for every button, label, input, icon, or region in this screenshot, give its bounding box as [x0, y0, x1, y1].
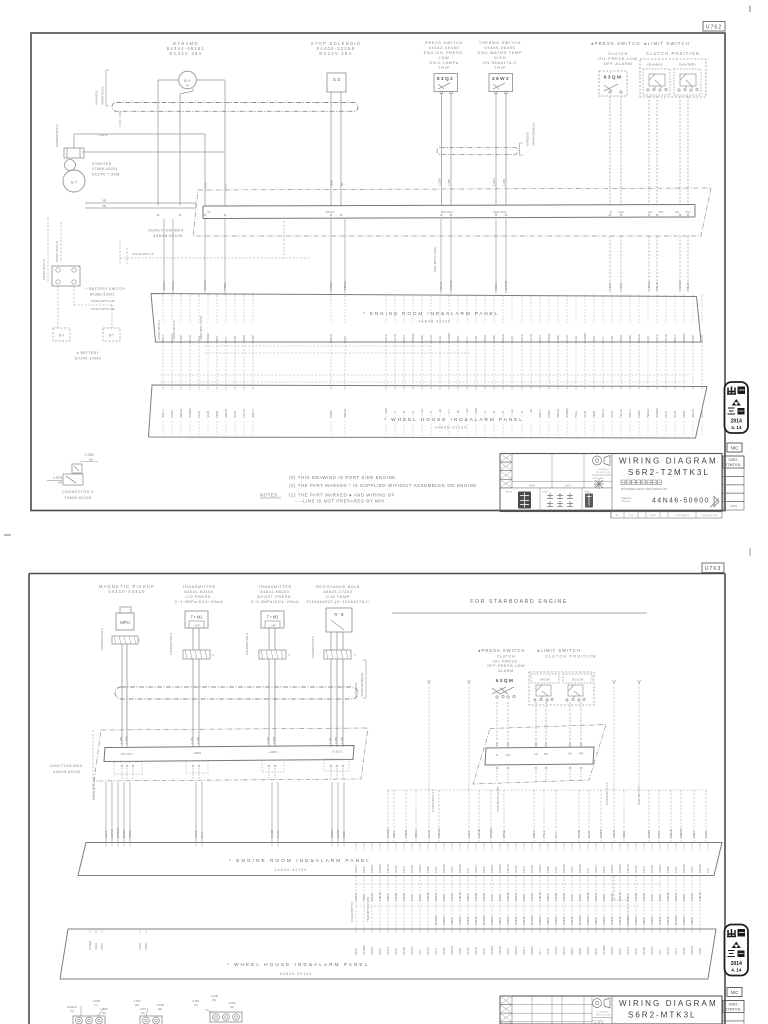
- svg-text:N: N: [610, 210, 612, 214]
- svg-text:OPAL3: OPAL3: [251, 409, 255, 418]
- svg-text:OPMP: OPMP: [442, 947, 446, 955]
- svg-text:T • M2: T • M2: [267, 615, 280, 620]
- svg-text:1A 1B 1S: 1A 1B 1S: [332, 750, 343, 754]
- svg-text:FB21G: FB21G: [562, 947, 566, 955]
- svg-text:63QS: 63QS: [510, 336, 514, 343]
- svg-text:S1HG: S1HG: [104, 831, 108, 838]
- svg-text:CW1D: CW1D: [482, 893, 486, 901]
- svg-text:PE8D: PE8D: [342, 831, 346, 838]
- svg-text:SAS0: SAS0: [450, 866, 454, 873]
- svg-text:CONNECTOR A: CONNECTOR A: [62, 490, 94, 494]
- svg-text:PSLG: PSLG: [664, 411, 668, 418]
- svg-text:RN1G0: RN1G0: [466, 916, 470, 925]
- svg-text:TIWN MPYC-12(1B): TIWN MPYC-12(1B): [496, 787, 500, 812]
- svg-text:BOOST PRESS.: BOOST PRESS.: [257, 595, 292, 599]
- svg-text:PWH10: PWH10: [530, 946, 534, 955]
- svg-text:OPMQ4: OPMQ4: [490, 945, 494, 955]
- svg-text:RN1G0: RN1G0: [562, 916, 566, 925]
- svg-text:PALB0: PALB0: [410, 865, 414, 873]
- svg-text:NOTES.: NOTES.: [260, 493, 279, 498]
- svg-text:0.6/1kV BPYC-4: 0.6/1kV BPYC-4: [157, 320, 161, 340]
- svg-text:S S: S S: [333, 77, 340, 82]
- svg-text:OPAL3: OPAL3: [628, 409, 632, 418]
- svg-text:8.6/1kV BPYC-1.5: 8.6/1kV BPYC-1.5: [605, 782, 609, 805]
- svg-text:PAL20: PAL20: [530, 893, 534, 901]
- svg-text:DC24V 35A: DC24V 35A: [169, 51, 202, 56]
- svg-text:PB1G: PB1G: [442, 894, 446, 901]
- svg-text:84625-17200: 84625-17200: [324, 590, 353, 594]
- svg-text:(R): (R): [194, 1003, 198, 1007]
- svg-text:STARTER: STARTER: [92, 162, 112, 166]
- svg-text:S1HG: S1HG: [438, 336, 442, 343]
- svg-text:(G): (G): [70, 1009, 74, 1013]
- svg-text:HARNESS: HARNESS: [95, 90, 99, 105]
- svg-text:PB1G: PB1G: [392, 831, 396, 838]
- svg-text:SAS0: SAS0: [690, 866, 694, 873]
- svg-text:S1MF0: S1MF0: [554, 916, 558, 925]
- svg-text:63QS: 63QS: [692, 831, 696, 838]
- svg-text:PBPG: PBPG: [215, 336, 219, 343]
- svg-text:PBPG: PBPG: [546, 894, 550, 901]
- svg-text:OY-1: OY-1: [200, 831, 204, 838]
- svg-text:0.85L: 0.85L: [193, 999, 200, 1003]
- svg-text:SAH0: SAH0: [587, 830, 591, 838]
- svg-text:CONNECTOR D: CONNECTOR D: [169, 632, 173, 655]
- svg-text:DC24V 15A: DC24V 15A: [319, 51, 352, 56]
- svg-text:RN1G0: RN1G0: [224, 409, 228, 418]
- svg-text:63QS: 63QS: [578, 894, 582, 901]
- svg-text:+1MP1: +1MP1: [193, 751, 202, 755]
- svg-text:S1HF0: S1HF0: [384, 334, 388, 343]
- svg-text:PWH10: PWH10: [586, 916, 590, 925]
- svg-text:2MP2D: 2MP2D: [450, 946, 454, 955]
- svg-text:OPAL3: OPAL3: [594, 864, 598, 873]
- svg-text:A E: A E: [186, 85, 190, 88]
- svg-text:PWH10: PWH10: [442, 916, 446, 925]
- svg-text:PAL20: PAL20: [188, 335, 192, 343]
- svg-text:1.33W: 1.33W: [100, 1007, 108, 1011]
- svg-text:1MP1D: 1MP1D: [458, 892, 462, 901]
- svg-text:44N45-50100: 44N45-50100: [280, 972, 313, 976]
- svg-text:PWH10: PWH10: [378, 864, 382, 873]
- svg-text:44N45-50100: 44N45-50100: [435, 426, 468, 430]
- svg-text:1.25L: 1.25L: [328, 737, 332, 744]
- svg-text:PWH10: PWH10: [682, 916, 686, 925]
- svg-text:PSLG: PSLG: [542, 831, 546, 838]
- svg-text:PWH10: PWH10: [490, 916, 494, 925]
- svg-text:PWN10: PWN10: [442, 864, 446, 873]
- svg-text:1MP1D: 1MP1D: [538, 892, 542, 901]
- svg-text:↓: ↓: [288, 652, 291, 658]
- svg-text:SAH0: SAH0: [506, 948, 510, 955]
- svg-text:PS5W: PS5W: [691, 335, 695, 343]
- svg-text:PB1G: PB1G: [362, 866, 366, 873]
- svg-text:PS10: PS10: [434, 866, 438, 873]
- svg-text:B-Y: B-Y: [184, 78, 191, 83]
- svg-text:26W2: 26W2: [492, 76, 510, 82]
- svg-text:TIWN MPYC-37(2S): TIWN MPYC-37(2S): [199, 316, 203, 340]
- svg-text:4. 14: 4. 14: [731, 425, 742, 430]
- svg-text:Y1G1D: Y1G1D: [619, 409, 623, 418]
- svg-text:PAL20: PAL20: [429, 335, 433, 343]
- svg-text:WIRING DIAGRAM: WIRING DIAGRAM: [619, 457, 718, 466]
- svg-text:OPAL1: OPAL1: [522, 946, 526, 955]
- svg-text:B-T: B-T: [59, 334, 64, 338]
- svg-text:OPMQ4: OPMQ4: [386, 828, 390, 838]
- svg-text:OPMQ4: OPMQ4: [88, 940, 92, 950]
- svg-text:S-T: S-T: [71, 180, 78, 185]
- svg-text:2MP2D: 2MP2D: [618, 916, 622, 925]
- svg-text:SAS0: SAS0: [610, 411, 614, 418]
- svg-text:ON:95&#176;C: ON:95&#176;C: [483, 61, 518, 65]
- svg-text:PS10: PS10: [650, 894, 654, 901]
- svg-text:RN1G0: RN1G0: [637, 334, 641, 343]
- svg-text:* BATTERY SWITCH: * BATTERY SWITCH: [86, 287, 125, 291]
- svg-text:PBPG: PBPG: [592, 336, 596, 343]
- svg-text:+ MP: + MP: [193, 624, 199, 628]
- svg-text:Y1G1D: Y1G1D: [242, 409, 246, 418]
- svg-text:OPMP: OPMP: [682, 947, 686, 955]
- svg-text:P(10k&#937;)0~120&#176;C: P(10k&#937;)0~120&#176;C: [306, 600, 369, 604]
- svg-text:U763: U763: [705, 566, 721, 572]
- svg-text:PB1G: PB1G: [682, 894, 686, 901]
- svg-text:84386-53001: 84386-53001: [90, 293, 115, 297]
- svg-text:OFF:ALARM: OFF:ALARM: [604, 61, 633, 66]
- svg-text:44N48-56105: 44N48-56105: [153, 233, 183, 238]
- svg-text:PALB0: PALB0: [530, 865, 534, 873]
- svg-text:T2MTK3L: T2MTK3L: [726, 463, 742, 467]
- svg-text:S1MF0: S1MF0: [538, 864, 542, 873]
- svg-text:84541-50400: 84541-50400: [185, 590, 214, 594]
- svg-text:5B: 5B: [102, 199, 106, 203]
- svg-text:RN1G0: RN1G0: [601, 409, 605, 418]
- svg-text:1.25B: 1.25B: [447, 179, 451, 186]
- svg-text:PSLG: PSLG: [402, 866, 406, 873]
- svg-text:PS5W: PS5W: [458, 947, 462, 955]
- svg-text:PSLG: PSLG: [197, 411, 201, 418]
- svg-text:PLG: PLG: [586, 868, 590, 873]
- svg-text:CONNECTOR E: CONNECTOR E: [245, 633, 249, 655]
- svg-text:63QM: 63QM: [604, 75, 623, 81]
- svg-text:SAH0: SAH0: [206, 410, 210, 418]
- svg-text:S1MF0: S1MF0: [458, 916, 462, 925]
- svg-text:44N46-50600: 44N46-50600: [652, 498, 710, 505]
- svg-text:S1HF0: S1HF0: [655, 334, 659, 343]
- svg-text:+ MP: + MP: [269, 624, 275, 628]
- svg-text:OPMWA: OPMWA: [655, 407, 659, 418]
- svg-text:PS5W: PS5W: [420, 335, 424, 343]
- svg-text:ALARM: ALARM: [498, 669, 514, 673]
- svg-text:OPAL3: OPAL3: [386, 946, 390, 955]
- svg-text:2MP2D: 2MP2D: [458, 864, 462, 873]
- svg-text:OIL PRESS.: OIL PRESS.: [493, 659, 519, 663]
- svg-text:2014: 2014: [731, 419, 742, 425]
- svg-text:OPMQ4: OPMQ4: [411, 333, 415, 343]
- svg-text:63QM: 63QM: [496, 678, 515, 684]
- svg-text:C/W TEMP: C/W TEMP: [326, 595, 350, 599]
- svg-text:RN1G0: RN1G0: [650, 946, 654, 955]
- svg-text:PWH10: PWH10: [634, 916, 638, 925]
- svg-text:PALB0: PALB0: [634, 893, 638, 901]
- svg-text:PE8D: PE8D: [215, 411, 219, 418]
- svg-text:PB1G: PB1G: [354, 948, 358, 955]
- svg-text:PAL20: PAL20: [655, 281, 659, 290]
- svg-text:1.25B: 1.25B: [196, 737, 200, 744]
- svg-text:* WHEEL HOUSE IND&ALARM PANEL: * WHEEL HOUSE IND&ALARM PANEL: [384, 417, 524, 423]
- svg-text:OPMQ4: OPMQ4: [682, 333, 686, 343]
- svg-text:3N:CCW: 3N:CCW: [572, 678, 584, 682]
- svg-text:PLG: PLG: [658, 950, 662, 955]
- svg-text:5PW: 5PW: [330, 180, 334, 186]
- svg-text:1.25B: 1.25B: [92, 999, 99, 1003]
- svg-text:OPMWA: OPMWA: [565, 407, 569, 418]
- svg-text:1.25YL: 1.25YL: [98, 133, 108, 137]
- svg-text:PWN10: PWN10: [679, 828, 683, 838]
- svg-text:PWN10: PWN10: [514, 946, 518, 955]
- svg-text:PSLG: PSLG: [522, 866, 526, 873]
- svg-text:DRWN: DRWN: [584, 492, 591, 494]
- svg-text:PWH10: PWH10: [437, 828, 441, 838]
- svg-text:●PRESS.SWITCH: ●PRESS.SWITCH: [591, 41, 641, 46]
- svg-text:3N:ASTERN: 3N:ASTERN: [679, 63, 696, 67]
- svg-text:↓: ↓: [212, 652, 215, 658]
- svg-text:OPAL1: OPAL1: [538, 334, 542, 343]
- svg-text:PS5W: PS5W: [698, 947, 702, 955]
- svg-text:OPMWA: OPMWA: [116, 827, 120, 838]
- svg-text:CONNECTOR A: CONNECTOR A: [55, 123, 59, 147]
- svg-text:1.25YL: 1.25YL: [53, 476, 63, 480]
- svg-text:0.6/1kV BPYC-1.5: 0.6/1kV BPYC-1.5: [431, 789, 435, 812]
- svg-text:L/O PRESS.: L/O PRESS.: [185, 595, 212, 599]
- svg-text:THERMO SWITCH: THERMO SWITCH: [479, 41, 521, 45]
- svg-text:PB1G: PB1G: [482, 866, 486, 873]
- svg-text:PALB0: PALB0: [577, 829, 581, 838]
- svg-text:U762: U762: [706, 25, 722, 31]
- svg-text:2MP2D: 2MP2D: [690, 946, 694, 955]
- svg-text:OPAL1: OPAL1: [674, 892, 678, 901]
- svg-text:P.1/2: P.1/2: [629, 515, 635, 517]
- svg-text:63QS: 63QS: [418, 894, 422, 901]
- svg-text:DC24V 200Ah: DC24V 200Ah: [75, 357, 102, 361]
- svg-text:1MP1D: 1MP1D: [504, 281, 508, 290]
- svg-text:PROJECTION: PROJECTION: [596, 1015, 611, 1017]
- svg-text:(Y): (Y): [94, 1003, 98, 1007]
- svg-text:OPMWA: OPMWA: [188, 407, 192, 418]
- svg-text:APPR: APPR: [730, 504, 737, 508]
- svg-text:CW1D: CW1D: [612, 830, 616, 838]
- svg-text:PS5W: PS5W: [170, 410, 174, 418]
- svg-text:* WHEEL HOUSE IND&ALARM PANEL: * WHEEL HOUSE IND&ALARM PANEL: [227, 962, 370, 968]
- svg-text:1.25B: 1.25B: [156, 1003, 163, 1007]
- svg-text:PS5W: PS5W: [179, 335, 183, 343]
- svg-text:OPAL3: OPAL3: [354, 864, 358, 873]
- svg-text:B42B: B42B: [650, 515, 656, 517]
- svg-text:OPMQ4: OPMQ4: [530, 915, 534, 925]
- svg-text:PS10: PS10: [570, 894, 574, 901]
- svg-text:ON:AHEAD: ON:AHEAD: [647, 63, 664, 67]
- svg-text:PSLG: PSLG: [194, 831, 198, 838]
- svg-text:R - B: R - B: [334, 612, 344, 617]
- svg-text:1.25B: 1.25B: [502, 179, 506, 186]
- svg-text:OPMWA: OPMWA: [206, 332, 210, 343]
- svg-text:N/O: N/O: [506, 753, 512, 757]
- svg-text:W21 W22: W21 W22: [493, 210, 507, 214]
- svg-text:OPMP: OPMP: [492, 335, 496, 343]
- svg-text:●LIMIT SWITCH: ●LIMIT SWITCH: [644, 41, 690, 46]
- svg-text:FB21G: FB21G: [647, 281, 651, 290]
- svg-text:PWH10: PWH10: [678, 280, 682, 290]
- svg-text:AS: AS: [675, 210, 679, 214]
- svg-text:TRIP: TRIP: [494, 66, 506, 70]
- svg-text:OFF:PRESS.LOW: OFF:PRESS.LOW: [487, 664, 525, 668]
- svg-text:CLUTCH POSITION: CLUTCH POSITION: [545, 654, 596, 659]
- svg-text:OPAL3: OPAL3: [161, 409, 165, 418]
- svg-text:(W): (W): [230, 1005, 234, 1009]
- svg-text:PALB0: PALB0: [270, 829, 274, 838]
- svg-text:Y1G1D: Y1G1D: [554, 946, 558, 955]
- svg-text:B21 B22: B21 B22: [441, 210, 453, 214]
- svg-text:1MP1D: 1MP1D: [477, 829, 481, 838]
- svg-text:OPAL1: OPAL1: [434, 892, 438, 901]
- svg-text:S1HG: S1HG: [94, 943, 98, 950]
- svg-text:OPMP: OPMP: [628, 335, 632, 343]
- svg-text:0.6/1kV BPYC-5: 0.6/1kV BPYC-5: [350, 901, 354, 922]
- svg-text:PE8D: PE8D: [426, 866, 430, 873]
- svg-text:84641-98200: 84641-98200: [261, 590, 290, 594]
- svg-text:44N48-51100: 44N48-51100: [101, 86, 105, 105]
- svg-text:PWH10: PWH10: [449, 280, 453, 290]
- svg-text:3~0.3MPa/DC4~20mA: 3~0.3MPa/DC4~20mA: [251, 600, 299, 604]
- svg-text:PBPG: PBPG: [386, 894, 390, 901]
- svg-text:OPMWA: OPMWA: [362, 945, 366, 955]
- svg-text:↓: ↓: [354, 652, 357, 658]
- svg-text:63QS: 63QS: [646, 336, 650, 343]
- svg-text:2MP2D: 2MP2D: [426, 892, 430, 901]
- svg-text:PALB0: PALB0: [650, 865, 654, 873]
- svg-text:N/C: N/C: [731, 446, 739, 451]
- svg-text:●LIMIT SWITCH: ●LIMIT SWITCH: [537, 648, 581, 653]
- svg-text:PWH10: PWH10: [179, 408, 183, 418]
- svg-text:CW1D: CW1D: [474, 947, 478, 955]
- svg-text:FNR SCALE: FNR SCALE: [592, 1020, 604, 1023]
- svg-text:S6R2-: S6R2-: [728, 1003, 739, 1007]
- svg-text:F8685-02108: F8685-02108: [65, 496, 92, 500]
- svg-text:OPNG: OPNG: [394, 865, 398, 873]
- svg-text:S1HF0: S1HF0: [586, 946, 590, 955]
- svg-text:PS5W: PS5W: [404, 830, 408, 838]
- svg-text:PALB0: PALB0: [642, 947, 646, 955]
- svg-text:●PRESS.SWITCH: ●PRESS.SWITCH: [478, 648, 525, 653]
- svg-text:2MP2D: 2MP2D: [570, 916, 574, 925]
- svg-text:RN1G0: RN1G0: [669, 829, 673, 838]
- svg-text:PE8D: PE8D: [622, 831, 626, 838]
- svg-text:0~1.0MPa/DC4~20mA: 0~1.0MPa/DC4~20mA: [175, 600, 223, 604]
- svg-text:PS5W: PS5W: [329, 410, 333, 418]
- svg-text:PBPG: PBPG: [466, 894, 470, 901]
- svg-text:(1) THE PART MARKED ● AND WIRI: (1) THE PART MARKED ● AND WIRING OF: [289, 493, 395, 498]
- svg-text:OPAL1: OPAL1: [161, 334, 165, 343]
- svg-text:2S&V MPYC-7: 2S&V MPYC-7: [637, 786, 641, 805]
- svg-text:ON:CW: ON:CW: [540, 678, 550, 682]
- svg-text:AH: AH: [534, 752, 538, 756]
- svg-text:0.6/1kV BPYC-1.5: 0.6/1kV BPYC-1.5: [92, 778, 96, 800]
- svg-text:FB21G: FB21G: [343, 281, 347, 290]
- svg-text:OPAL3: OPAL3: [171, 281, 175, 290]
- svg-text:CHKD: CHKD: [542, 492, 549, 494]
- svg-text:5B: 5B: [102, 204, 106, 208]
- svg-text:CW1D: CW1D: [242, 335, 246, 343]
- svg-text:PAL20: PAL20: [690, 893, 694, 901]
- svg-text:S1HG: S1HG: [634, 948, 638, 955]
- svg-text:PAL20: PAL20: [610, 893, 614, 901]
- svg-text:PS10: PS10: [490, 894, 494, 901]
- svg-text:2014: 2014: [731, 961, 742, 967]
- svg-text:PAL20: PAL20: [450, 893, 454, 901]
- svg-text:PRESS.SWITCH: PRESS.SWITCH: [425, 41, 463, 45]
- svg-text:PBPG: PBPG: [642, 918, 646, 925]
- svg-text:S1HG: S1HG: [138, 943, 142, 950]
- svg-text:OPMWA: OPMWA: [489, 827, 493, 838]
- svg-text:PE8D: PE8D: [546, 866, 550, 873]
- svg-text:PS10: PS10: [410, 894, 414, 901]
- svg-text:SHIELD: SHIELD: [67, 1005, 77, 1009]
- svg-text:● BATTERY: ● BATTERY: [77, 351, 100, 355]
- svg-text:S1: S1: [207, 210, 211, 214]
- svg-text:37666-45201: 37666-45201: [92, 167, 118, 171]
- svg-text:OPMQ4: OPMQ4: [674, 915, 678, 925]
- svg-text:↓: ↓: [138, 637, 141, 643]
- svg-text:OPAL1: OPAL1: [402, 334, 406, 343]
- svg-text:CW1D: CW1D: [336, 830, 340, 838]
- svg-text:44N45-50200: 44N45-50200: [419, 320, 452, 324]
- svg-text:CW1D: CW1D: [619, 335, 623, 343]
- svg-text:2MP2D: 2MP2D: [698, 864, 702, 873]
- svg-text:1MP1D: 1MP1D: [386, 864, 390, 873]
- svg-text:PAL20: PAL20: [439, 281, 443, 290]
- svg-text:CONNECTOR F: CONNECTOR F: [311, 636, 315, 658]
- svg-text:PWH10: PWH10: [343, 408, 347, 418]
- svg-text:CONNECTOR C: CONNECTOR C: [100, 627, 104, 650]
- svg-text:44N49-59100: 44N49-59100: [53, 770, 80, 774]
- svg-text:SAH0: SAH0: [474, 335, 478, 343]
- svg-text:3-rd ANGLE: 3-rd ANGLE: [597, 1011, 609, 1014]
- svg-text:S1MF0: S1MF0: [650, 916, 654, 925]
- svg-text:PS10: PS10: [554, 866, 558, 873]
- svg-text:OPMWA: OPMWA: [583, 332, 587, 343]
- svg-text:APPR: APPR: [506, 491, 512, 494]
- svg-text:CW1D: CW1D: [483, 335, 487, 343]
- svg-text:1MP1D: 1MP1D: [506, 864, 510, 873]
- svg-text:S1MF0: S1MF0: [658, 864, 662, 873]
- svg-text:ENG.WATER TEMP: ENG.WATER TEMP: [478, 51, 523, 55]
- svg-text:(B): (B): [212, 998, 216, 1002]
- svg-text:SAS0: SAS0: [570, 866, 574, 873]
- svg-text:RN1G0: RN1G0: [610, 916, 614, 925]
- svg-text:Y1G1D: Y1G1D: [664, 334, 668, 343]
- svg-text:PALB0: PALB0: [474, 893, 478, 901]
- svg-text:OPMWA: OPMWA: [602, 945, 606, 955]
- svg-text:PB1G: PB1G: [602, 894, 606, 901]
- svg-text:PE8D: PE8D: [592, 411, 596, 418]
- svg-text:PWN10: PWN10: [682, 864, 686, 873]
- svg-text:PBPG: PBPG: [456, 336, 460, 343]
- svg-text:(E): (E): [89, 458, 93, 462]
- svg-text:1.25LY: 1.25LY: [492, 177, 496, 186]
- svg-text:RN1G0: RN1G0: [410, 946, 414, 955]
- svg-text:SAH0: SAH0: [610, 335, 614, 343]
- svg-text:RN1G0: RN1G0: [514, 916, 518, 925]
- svg-text:PSLG: PSLG: [642, 866, 646, 873]
